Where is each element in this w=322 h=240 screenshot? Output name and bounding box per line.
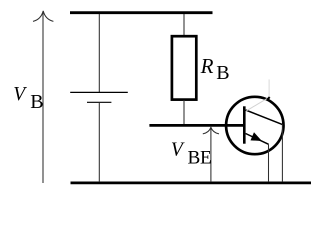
svg-text:R: R (200, 54, 214, 78)
collector pin tick on circle (267, 97, 269, 99)
node: base wire (149, 124, 244, 127)
battery V_B positive plate (long) (70, 91, 128, 93)
battery V_B negative plate (short) (87, 101, 111, 103)
svg-text:B: B (30, 91, 43, 113)
svg-text:B: B (216, 62, 229, 84)
wire: resistor bottom lead (183, 100, 185, 124)
wire: battery top lead (98, 14, 100, 92)
resistor R_B body (172, 36, 196, 99)
voltage arrow V_B shaft (42, 12, 44, 184)
voltage arrow V_B head (33, 11, 53, 22)
svg-text:V: V (13, 84, 27, 105)
node: bottom ground rail (71, 181, 312, 184)
faint collector stub diagonal (246, 97, 269, 111)
node: top supply rail (70, 11, 213, 14)
wire: emitter lead down to ground rail (268, 144, 270, 181)
voltage arrow V_BE head (203, 127, 219, 134)
transistor Q1 emitter arrow (251, 133, 261, 141)
voltage arrow V_BE shaft (210, 128, 212, 182)
wire: battery bottom lead (98, 102, 100, 181)
svg-text:V: V (171, 139, 185, 160)
svg-text:BE: BE (188, 147, 212, 168)
transistor Q1 envelope circle (226, 97, 283, 154)
wire: collector lead down to ground rail (281, 124, 283, 181)
faint collector stub vertical (268, 79, 270, 97)
wire: resistor top lead (183, 14, 185, 36)
transistor Q1 collector diagonal (246, 110, 283, 124)
transistor Q1 base bar (243, 106, 246, 143)
transistor Q1 emitter diagonal (246, 134, 269, 145)
